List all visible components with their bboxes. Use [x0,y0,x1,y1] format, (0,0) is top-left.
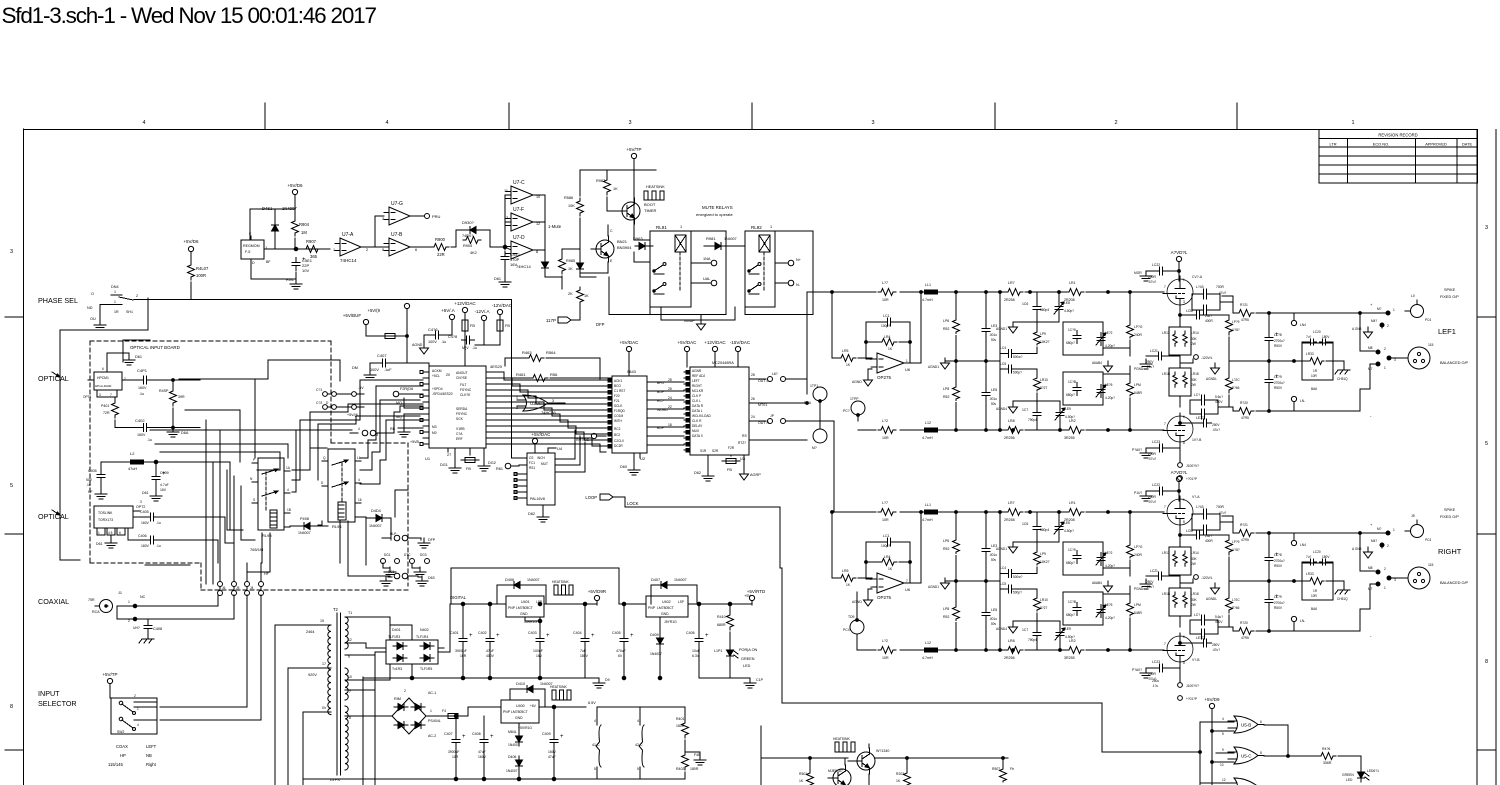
svg-text:PC4: PC4 [1425,318,1431,322]
svg-text:C4?8: C4?8 [448,335,457,339]
svg-text:1: 1 [770,225,772,229]
connector relay row right [362,430,368,436]
svg-text:8: 8 [349,716,351,720]
resistor R985 [559,256,566,274]
capacitor C405 opt2 [146,516,151,518]
svg-text:DC2R: DC2R [614,444,623,448]
tag LOOP [600,494,613,500]
power tube bottom 1 LEF1 [1178,463,1183,468]
svg-text:Tx1R3: Tx1R3 [392,667,402,671]
svg-text:20: 20 [446,373,450,377]
relay RL93 contacts [262,469,278,474]
capacitor RC4 500p [1004,573,1009,575]
svg-text:WCLK/LOAD: WCLK/LOAD [692,414,711,418]
capacitor RC19 2700u [1268,595,1270,600]
wire bias top rail [294,199,296,209]
relay RL93 [258,458,284,530]
svg-text:7: 7 [110,393,112,397]
resistor pair LR13 LR14 [1169,327,1191,355]
resistor R461 R56 [530,375,548,382]
svg-text:L?7: L?7 [882,281,888,285]
svg-text:R56: R56 [550,372,558,377]
svg-text:P: P [253,458,255,462]
svg-text:+: + [462,734,466,740]
svg-text:72R: 72R [103,411,110,415]
capacitor RC5 500p [1004,588,1009,590]
svg-text:+: + [490,734,494,740]
wire reg1 out [524,617,526,621]
svg-text:16V: 16V [536,654,543,658]
resistor LP9 10K27 [1034,331,1041,345]
capacitor RC6 580p [1036,522,1038,527]
svg-text:LR33: LR33 [1306,572,1314,576]
wire mute q links [868,744,870,748]
pin dot 2 RIGHT [1380,543,1384,547]
svg-text:U1: U1 [425,456,431,461]
svg-text:C401: C401 [450,631,459,635]
wire bridge2 out [426,715,446,717]
svg-text:250V: 250V [1146,580,1154,584]
svg-text:M8: M8 [1368,346,1373,350]
pin dots J1 [133,604,137,608]
svg-text:.47u?: .47u? [1212,648,1220,652]
svg-text:M8: M8 [1368,566,1373,570]
svg-text:C408: C408 [153,627,162,631]
svg-text:47uH: 47uH [128,467,137,471]
svg-text:S2R: S2R [712,449,719,453]
svg-text:DELAY: DELAY [692,424,703,428]
svg-text:M4?: M4? [1371,539,1377,543]
svg-text:+5V/R1G: +5V/R1G [518,726,532,730]
svg-text:C4P1: C4P1 [137,368,148,373]
svg-text:LC?9: LC?9 [1274,595,1282,599]
ground X1 [295,279,297,284]
svg-text:C405: C405 [612,631,621,635]
svg-text:100p?: 100p? [881,544,890,548]
svg-text:F-5: F-5 [245,250,250,254]
svg-text:V?-B: V?-B [1192,658,1200,662]
wire J1 hot [137,595,218,606]
wire U7 inputs vertical [504,195,506,250]
wire U7-A out [366,246,389,248]
svg-text:10K27: 10K27 [1040,560,1050,564]
svg-text:NC: NC [140,595,146,599]
svg-text:1: 1 [137,707,139,711]
capacitor C408 coax [147,621,149,626]
diode D410 [527,686,533,693]
svg-text:LM7805CT: LM7805CT [516,606,533,610]
svg-text:1C6: 1C6 [1022,302,1028,306]
resistor L7 top [878,289,896,296]
border tick left [5,749,24,751]
svg-text:FB: FB [470,324,475,328]
svg-text:LP?G: LP?G [1134,545,1143,549]
analog ground out LEF1 [1367,327,1369,332]
svg-text:GND: GND [520,612,528,616]
svg-text:+: + [546,633,550,639]
svg-text:1C?B: 1C?B [1068,600,1076,604]
capacitor RC21 mid [1154,575,1159,577]
svg-text:LOOP: LOOP [585,495,597,500]
svg-text:2: 2 [366,248,368,252]
svg-text:DG1: DG1 [384,553,391,557]
svg-text:P401: P401 [101,404,109,408]
transformer secondary taps [345,616,390,618]
test point TP3 [813,429,827,443]
wire bridge2 feed [374,690,376,702]
svg-text:500p?: 500p? [1013,371,1022,375]
svg-text:765/1M: 765/1M [250,547,263,552]
wire relays to U1 mesh [360,380,423,412]
svg-text:4.7mH: 4.7mH [922,518,933,522]
svg-text:C409: C409 [160,471,169,475]
svg-text:180R: 180R [690,767,699,771]
resistor LR1 2R203 [1066,289,1084,296]
wire LEF1 mid line [945,360,1000,362]
diode D409 vertical [657,638,664,644]
ground C408 [147,635,149,639]
analog ground U3 [743,469,745,474]
svg-text:CLK L: CLK L [692,399,701,403]
svg-text:R50V: R50V [1274,344,1283,348]
svg-text:100uF: 100uF [533,649,543,653]
op-amp U6 LEF1 [877,353,904,373]
svg-text:U7-A: U7-A [342,232,354,238]
svg-text:LP?9: LP?9 [1232,320,1240,324]
svg-text:LR1: LR1 [1069,501,1076,505]
svg-text:MGR: MGR [1134,271,1142,275]
resistor LR10 [1034,377,1041,391]
svg-text:C: C [610,229,613,233]
svg-text:LR13: LR13 [1162,551,1170,555]
analog ground R lower [1012,622,1014,627]
svg-text:1: 1 [333,248,335,252]
svg-text:.1u: .1u [139,392,144,396]
power -12V/DAC [497,309,502,314]
svg-text:LCM: LCM [1186,309,1193,313]
resistor R401 72R [112,400,119,418]
svg-text:1R: 1R [1313,589,1318,593]
connector RN4 [1291,540,1296,545]
wire rail to reg2 [619,603,646,605]
svg-text:.07u?: .07u? [1148,457,1156,461]
svg-text:1: 1 [1183,278,1185,282]
svg-text:LED: LED [1346,778,1353,782]
wire bridge1 bottom [345,664,390,680]
svg-text:1K: 1K [584,294,589,298]
svg-text:16: 16 [358,498,362,502]
svg-text:680p?: 680p? [1066,341,1075,345]
heatsink U400 [552,699,571,701]
inductor L2 47uH [131,460,144,464]
heatsink Q1 [644,199,664,201]
svg-text:C402: C402 [478,631,487,635]
svg-text:LE?5: LE?5 [1105,603,1113,607]
svg-text:PRU: PRU [432,214,441,219]
svg-text:47R5: 47R5 [1241,416,1249,420]
svg-text:LCM: LCM [1186,529,1193,533]
svg-text:160V: 160V [141,521,150,525]
svg-text:C?A: C?A [456,432,463,436]
svg-text:R203: R203 [896,772,904,776]
resistor RP6 col [953,539,960,554]
power -12V/A [481,315,486,320]
connector N- right [788,280,794,286]
svg-text:LR8: LR8 [1008,639,1015,643]
svg-text:2W: 2W [1191,342,1196,346]
svg-text:AGND1: AGND1 [928,365,939,369]
capacitor RE17 [1199,642,1204,644]
capacitor C407 [378,362,383,364]
diode D946 [577,263,584,269]
svg-text:L?43: L?43 [1196,285,1204,289]
svg-text:U400: U400 [516,704,525,708]
svg-text:BF: BF [266,260,271,264]
ground LC23 [1145,448,1147,453]
svg-text:LP6: LP6 [943,319,949,323]
svg-text:CLK R: CLK R [692,419,702,423]
svg-text:6: 6 [415,248,417,252]
svg-text:10V: 10V [302,268,309,273]
svg-text:N402: N402 [420,628,429,632]
svg-text:CLK?E: CLK?E [460,393,471,397]
wire m12dac [499,317,501,320]
wire LEF1 top rail [807,291,876,293]
svg-text:3: 3 [140,500,142,504]
svg-text:16V: 16V [160,488,167,492]
svg-text:4.7uF: 4.7uF [160,483,169,487]
capacitor LC4 500p [1004,353,1009,355]
optical receiver OPT1 [94,372,122,390]
svg-text:D410: D410 [516,682,525,686]
svg-text:LE?5: LE?5 [1105,383,1113,387]
svg-text:790p4: 790p4 [1028,638,1037,642]
svg-text:D61: D61 [96,542,103,546]
ground C409 [155,491,157,496]
svg-text:LE5: LE5 [991,608,997,612]
svg-text:2: 2 [1384,347,1386,351]
svg-text:L2: L2 [130,451,135,456]
resistor pair LR1B LR1C [1169,368,1191,396]
svg-text:U7-G: U7-G [391,201,403,207]
bridge rectifier D401-D404 [386,640,438,664]
svg-text:M0: M0 [432,431,437,435]
svg-text:LC?: LC? [1194,613,1200,617]
svg-text:26: 26 [751,397,755,401]
capacitor R43 coupling [1199,513,1204,515]
svg-text:LP8: LP8 [943,387,949,391]
capacitor LC21 mid [1154,355,1159,357]
svg-text:HEATSINK: HEATSINK [550,685,567,689]
svg-text:AGRP: AGRP [750,473,761,477]
IC U4 PAL16V8 [527,453,555,505]
wire trim joins LEF1 [1103,347,1130,349]
svg-text:4-20p?: 4-20p? [1105,616,1115,620]
svg-text:RS1: RS1 [529,466,535,470]
svg-text:+5V/DAC: +5V/DAC [678,340,698,345]
ground OPT2 [110,538,112,543]
inductor RL1 top [925,510,938,514]
svg-text:5843: 5843 [627,369,637,374]
svg-text:C407: C407 [377,353,387,358]
resistor LP9 out [1226,317,1233,335]
border tick top [1236,103,1238,130]
power +5V/A [449,314,454,319]
capacitor C402 .47u [489,634,491,639]
transistor Q2 BN21 BN3904 [596,240,614,258]
wire RIGHT bottom rail [858,649,876,651]
svg-text:4K2: 4K2 [470,251,477,255]
svg-text:GND: GND [515,716,523,720]
diode D930 clamp [455,230,457,247]
svg-text:TLF1R4: TLF1R4 [416,635,428,639]
svg-text:.1u: .1u [156,544,161,548]
svg-text:LC5: LC5 [1000,362,1006,366]
analog ground U6 RIGHT [867,595,869,600]
svg-text:RLP: RLP [390,532,396,536]
svg-text:1: 1 [906,359,908,363]
svg-text:RC2: RC2 [614,427,621,431]
svg-text:PC?: PC? [843,409,850,413]
capacitor LC20 pair [1308,341,1311,343]
svg-text:LR33: LR33 [1306,352,1314,356]
svg-text:D4S1: D4S1 [262,206,273,211]
svg-text:6V: 6V [618,654,623,658]
relay RL94 [328,449,355,522]
svg-text:10: 10 [1220,763,1224,767]
svg-text:A GN3: A GN3 [1352,547,1362,551]
svg-text:R907: R907 [306,239,317,244]
svg-text:M3: M3 [432,425,437,429]
svg-text:AGND1: AGND1 [996,547,1007,551]
svg-text:LP9: LP9 [1040,552,1046,556]
svg-text:BC2: BC2 [614,433,620,437]
border right outer [1495,130,1497,785]
wire mesh crossing A [60,298,148,560]
connector RN5 [1291,616,1296,621]
svg-text:-120V/L: -120V/L [1201,356,1213,360]
svg-text:30K: 30K [1191,557,1198,561]
diode P498 [304,523,310,530]
analog ground R mid right [1107,581,1109,586]
resistor R904b 4K2 [463,237,481,244]
svg-text:LEF1: LEF1 [1438,327,1456,336]
wire opt1 out [152,379,173,381]
wire TP1 link [819,401,821,429]
svg-text:OP275: OP275 [877,595,892,600]
ferrite FB U1 [465,458,475,463]
diode D407 1N4007 [661,582,667,589]
svg-text:T2: T2 [333,607,339,612]
svg-text:1K: 1K [568,267,573,271]
wire to diode clamp [451,246,456,248]
svg-text:+?01?P: +?01?P [1186,477,1197,481]
svg-text:LC22: LC22 [1152,263,1160,267]
svg-text:180V: 180V [1322,555,1330,559]
ground F4B [699,755,701,760]
resistor RR4 feedback [879,559,897,566]
svg-text:ANOUT: ANOUT [456,371,468,375]
svg-text:115/145: 115/145 [108,762,123,767]
svg-text:5: 5 [1222,732,1224,736]
wire selector outputs [156,719,158,721]
transformer T2 core [336,613,338,775]
revision record table [1319,130,1478,184]
svg-text:100V: 100V [370,368,379,372]
svg-text:LOCK: LOCK [627,501,639,506]
svg-text:28: 28 [751,373,755,377]
svg-text:100p?: 100p? [881,324,890,328]
fuse FB2 [462,320,468,331]
wire osc out [264,248,290,250]
svg-text:10K27: 10K27 [1040,340,1050,344]
svg-text:+5V/D9R: +5V/D9R [588,589,607,594]
svg-text:RL94: RL94 [332,524,342,529]
svg-text:P?66: P?66 [1232,606,1240,610]
svg-text:+: + [469,633,473,639]
svg-text:47R5: 47R5 [1241,318,1249,322]
wire U7-B out [415,246,432,248]
svg-text:10R: 10R [882,518,889,522]
border tick top [994,103,996,130]
border tick left [5,316,24,318]
svg-text:J100?V?: J100?V? [1186,684,1199,688]
capacitor C942 470p [504,252,506,257]
svg-text:J6: J6 [222,586,226,590]
wire R4L07 [190,256,192,262]
svg-text:8: 8 [1183,661,1185,665]
svg-text:IMTH: IMTH [614,419,622,423]
svg-text:13: 13 [504,216,508,220]
svg-text:R564: R564 [546,350,556,355]
wire relay outer boxes [650,231,726,315]
svg-text:+: + [705,633,709,639]
svg-text:250u: 250u [1152,679,1159,683]
svg-text:4: 4 [385,120,388,126]
svg-text:6.5V: 6.5V [588,701,596,705]
svg-text:LC23: LC23 [1152,660,1160,664]
svg-text:-SPD4/4ES20: -SPD4/4ES20 [432,392,453,396]
capacitor LC18 2700u [1268,333,1270,338]
svg-text:D62: D62 [528,512,535,516]
svg-text:.001u: .001u [989,617,997,621]
power +5V/TP selector [107,678,112,683]
svg-text:NB: NB [146,753,152,758]
capacitor LC1 feedback [883,321,888,323]
svg-text:.1u: .1u [441,340,446,344]
svg-text:+5V/D9: +5V/D9 [1204,697,1220,702]
connector row J4-J6 [218,582,223,587]
connector relay UAL [711,280,717,286]
test point TP2 [851,401,865,415]
svg-text:1M: 1M [301,230,307,235]
heatsink U401 [554,594,573,596]
svg-text:FSYNC: FSYNC [460,388,472,392]
svg-text:4: 4 [142,120,145,126]
ground U2 [633,465,635,470]
svg-text:L12: L12 [925,421,931,425]
wire mute row [561,249,563,256]
capacitor C408 psu2 [483,735,485,740]
svg-text:+SPD4: +SPD4 [432,387,443,391]
wire relay bottom bus [608,277,610,315]
svg-text:U402: U402 [662,600,671,604]
connector XLR out RIGHT [1408,567,1430,589]
svg-text:+12V/DAC: +12V/DAC [704,340,726,345]
svg-text:LC5: LC5 [1000,582,1006,586]
svg-text:100V: 100V [428,340,437,344]
svg-text:AGND1: AGND1 [996,327,1007,331]
